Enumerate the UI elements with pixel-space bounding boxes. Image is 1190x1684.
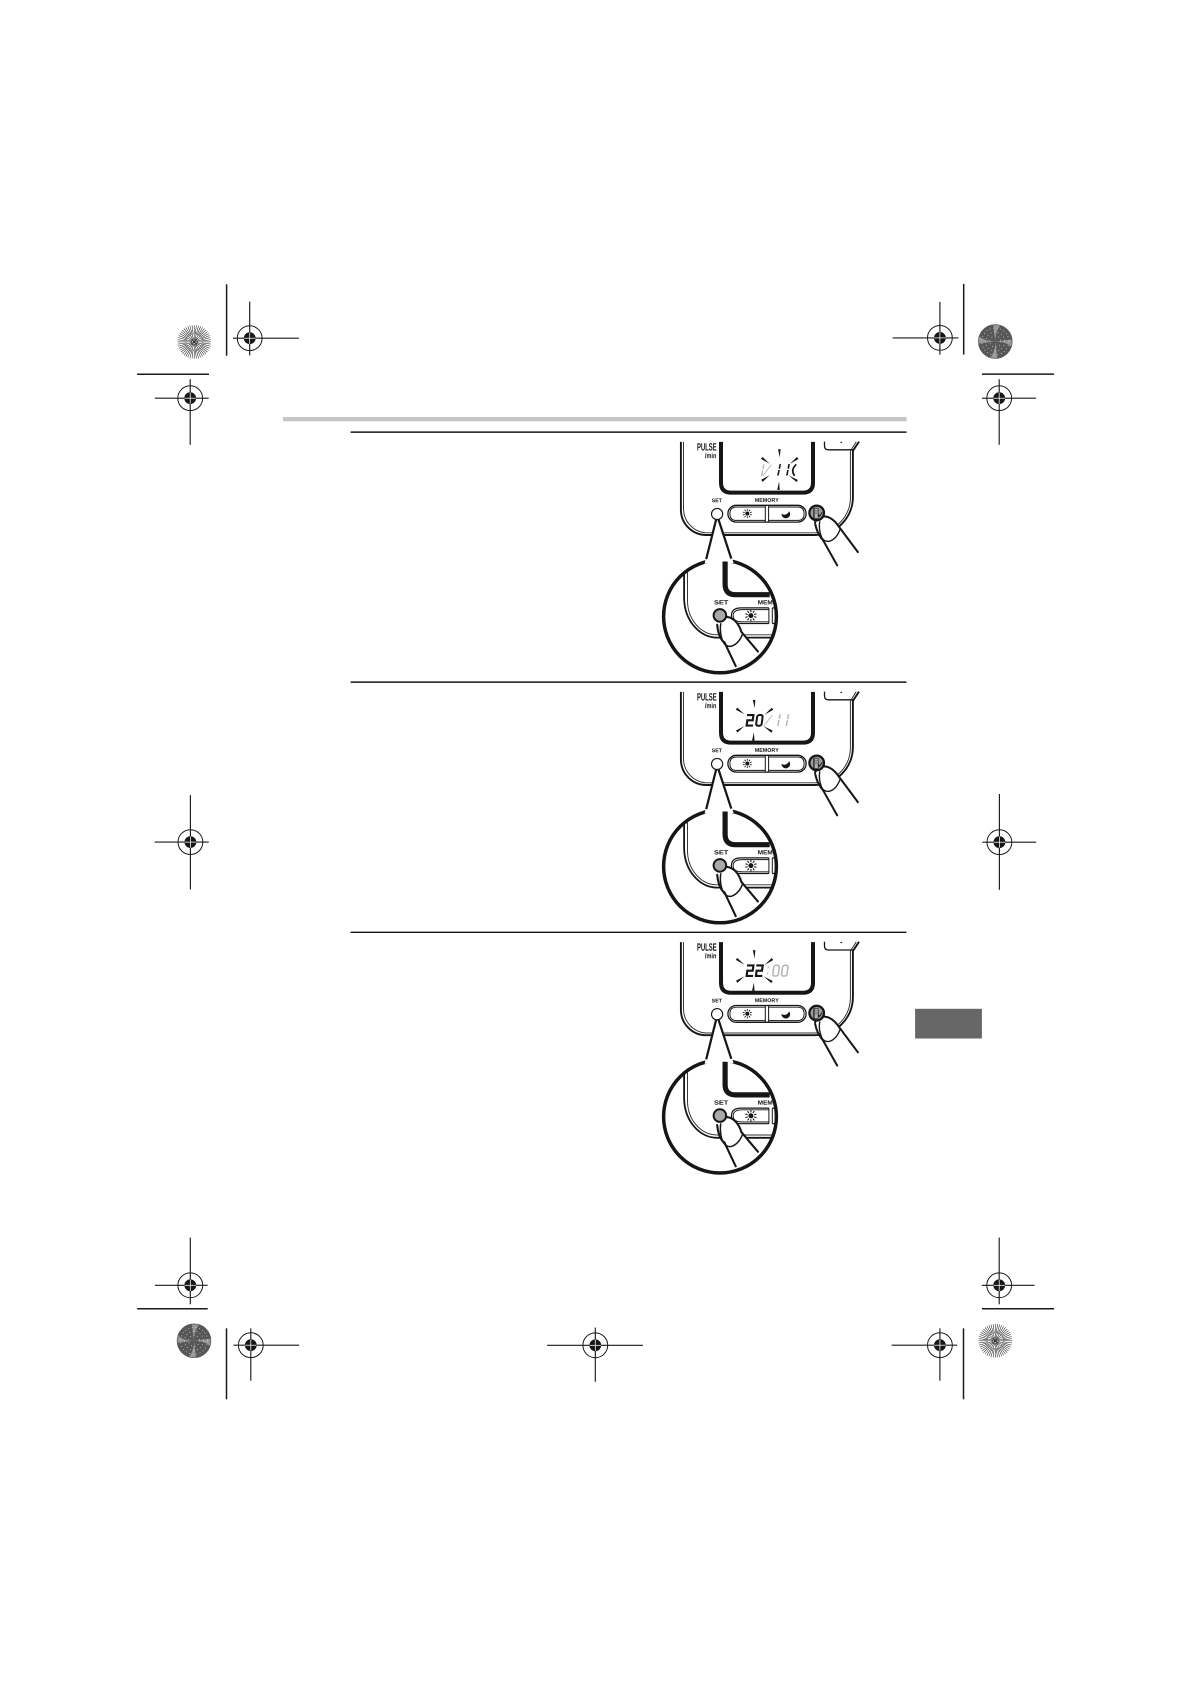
registration mark bottom-right G [982,1238,1035,1305]
device 3: memory buttons (day/night) [728,1006,806,1023]
magnified pressing finger [717,617,758,666]
device 2: moon icon (night) [781,761,791,769]
magnified pressing finger [717,1117,758,1166]
fingernail [819,521,840,541]
device body inner highlight line [683,942,856,1033]
device 1: moon icon (night) [781,511,791,519]
callout wedge 1 [705,514,734,564]
crop line top-left horizontal [137,373,209,375]
color-calibration pinwheel (light) top-left [177,325,211,359]
magnified device corner [684,558,776,638]
registration mark bottom-right H [892,1328,958,1380]
LCD display content: 20:11, 20 blinking [746,714,789,726]
crop line bottom-left horizontal [137,1308,208,1310]
color-calibration pinwheel (dark) bottom-left [177,1324,211,1358]
registration mark top-right D [982,379,1036,445]
registration mark top-left A [233,302,299,356]
magnified display corner [725,1062,770,1095]
magnified MEMORY label [758,600,777,604]
color-calibration pinwheel (light) bottom-right [979,1324,1013,1358]
registration mark top-right C [893,302,959,355]
device 3: PULSE /min label [697,943,716,951]
device 1: LCD display window frame [721,442,813,493]
blink rays [736,950,773,991]
page header gray bar [283,417,907,421]
section thumb tab [915,1009,982,1039]
magnified day button [731,608,769,624]
device 2: LCD display window frame [721,692,813,743]
device 1: start button fragment [825,442,853,450]
device 2: memory buttons (day/night) [728,755,806,772]
color-calibration pinwheel (dark) top-right [978,325,1012,359]
device 2: SET label [712,749,722,753]
device 2: sun icon (day) [745,762,749,766]
device 3: dark button being pressed [809,1006,824,1021]
device 1: dark button being pressed [809,506,824,521]
registration mark bottom-left F [234,1328,300,1380]
device 3: LCD display window frame [721,942,813,993]
magnified MEMORY label [758,850,777,854]
device body inner highlight line [683,692,856,783]
magnified SET button pressed [714,859,727,872]
device 1: MEMORY label [755,498,779,502]
fingernail [819,771,840,791]
device 2: pressing finger (small) [815,766,858,815]
LCD display content: 22:00, 22 blinking [746,965,789,976]
magnified pressing finger [717,867,758,916]
device 1: SET button [712,508,723,519]
crop line bottom-right horizontal [982,1308,1054,1310]
device 3: pressing finger (small) [815,1017,858,1066]
LCD display content: blinking colon [762,464,797,476]
magnified display corner [725,812,770,845]
device 1: monitor body outline [681,442,859,535]
device 2: monitor body outline [681,692,859,785]
device 3: monitor body outline [681,942,859,1035]
magnified SET button pressed [714,1109,727,1122]
registration mark bottom-center [547,1328,643,1382]
panel 3 top border [351,931,907,933]
device 1: PULSE /min label [697,443,716,451]
magnifier circle 2 [664,810,777,923]
blink rays [761,449,798,490]
device 2: PULSE /min label [697,693,716,701]
device body inner highlight line [683,442,856,533]
crop line bottom-right vertical [963,1328,965,1399]
device 3: SET label [712,999,722,1003]
device 3: sun icon (day) [745,1012,749,1016]
magnified device corner [684,808,776,888]
device 3: moon icon (night) [781,1011,791,1019]
registration mark bottom-left E [155,1238,208,1305]
device 2: dark button being pressed [809,756,824,771]
magnified SET label [714,600,728,604]
crop line top-left vertical [226,284,228,355]
crop line top-right horizontal [982,373,1054,375]
device 1: SET label [712,499,722,503]
magnified device corner [684,1058,776,1138]
device 3: SET button [712,1009,723,1020]
device 1: memory buttons (day/night) [728,505,806,522]
magnifier circle 3 [664,1060,777,1173]
registration mark top-left B [155,379,209,445]
blink rays [736,700,773,741]
magnified SET label [714,1100,728,1104]
device 1: sun icon (day) [745,512,749,516]
crop line bottom-left vertical [226,1328,228,1399]
registration mark left-middle [155,795,209,889]
crop line top-right vertical [963,284,965,355]
magnifier circle 1 [664,560,777,673]
device 2: SET button [712,758,723,769]
magnified day button [731,858,769,874]
device 1: pressing finger (small) [815,516,858,565]
magnified SET label [714,850,728,854]
panel 1 top border [351,431,907,433]
callout wedge 3 [705,1014,734,1063]
device 2: MEMORY label [755,748,779,752]
device 3: start button fragment [825,942,853,950]
device 2: start button fragment [825,692,853,700]
callout wedge 2 [705,764,734,814]
magnified day button [731,1108,769,1124]
registration mark right-middle [982,794,1036,890]
fingernail [819,1022,840,1042]
device 3: MEMORY label [755,998,779,1002]
magnified SET button pressed [714,609,727,622]
panel 2 top border [351,681,907,683]
magnified MEMORY label [758,1100,777,1104]
magnified display corner [725,562,770,595]
